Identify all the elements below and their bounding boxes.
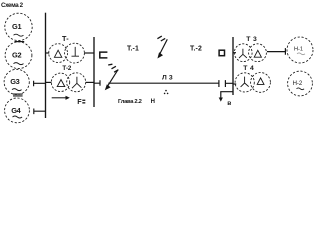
svg-text:Т.-1: Т.-1 xyxy=(127,45,139,52)
arrow from bus C bottom (load feeder) xyxy=(219,92,233,102)
label T- (transformer T1 label) xyxy=(62,34,69,43)
node double-bar between G3 and G4 xyxy=(13,94,23,96)
bus C xyxy=(232,37,234,95)
fault K1 lightning arrow xyxy=(157,36,167,58)
svg-text:Глава 2.2: Глава 2.2 xyxy=(118,99,142,105)
transformer T2 xyxy=(51,73,85,92)
bus A (generator bus) xyxy=(45,13,47,118)
transformer T1 xyxy=(49,43,85,63)
svg-text:Н: Н xyxy=(151,99,155,105)
wire bus C to T3 xyxy=(233,52,236,54)
svg-text:Т-: Т- xyxy=(62,34,69,43)
svg-text:Т 3: Т 3 xyxy=(246,36,257,43)
svg-text:Схема 2: Схема 2 xyxy=(1,2,24,9)
svg-text:F: F xyxy=(77,97,82,106)
generator G3 xyxy=(4,69,29,94)
caption text under L-3 xyxy=(118,99,155,105)
wire bus A to T2 xyxy=(46,81,52,83)
label T-2 (transformer T2 label) xyxy=(62,65,71,72)
svg-text:Т 4: Т 4 xyxy=(243,65,254,72)
breaker tick right end of L-3 xyxy=(218,80,220,87)
label T 4 xyxy=(243,65,254,72)
wire bus B stub with breaker tick xyxy=(94,80,100,86)
label T-2 on line L-2 xyxy=(190,45,202,52)
svg-text:Т.-2: Т.-2 xyxy=(190,45,202,52)
svg-text:Н-2: Н-2 xyxy=(293,81,303,87)
title text "Схема 2" xyxy=(1,2,24,9)
fault K2 lightning arrow on L-3 xyxy=(105,64,119,90)
generator G2 xyxy=(5,42,32,69)
wire T3 to load H-1 with tick xyxy=(267,48,285,55)
breaker square (open) at bus B, line L-1 left end xyxy=(100,52,108,58)
label T 3 xyxy=(246,36,257,43)
load H-1 xyxy=(287,37,313,63)
bus B xyxy=(93,37,95,107)
svg-text:G2: G2 xyxy=(12,51,21,60)
three-dot mark under L-3 xyxy=(164,90,169,94)
svg-text:Н-1: Н-1 xyxy=(294,47,303,53)
svg-text:в: в xyxy=(227,100,231,107)
second tick and stub to bus C xyxy=(225,80,233,87)
load H-2 xyxy=(288,71,313,96)
line L-3 xyxy=(108,82,219,84)
svg-text:Л 3: Л 3 xyxy=(162,74,173,81)
wire T1 to bus B xyxy=(84,52,94,54)
wire bus C to T4 xyxy=(233,83,236,85)
label в near arrow xyxy=(227,100,231,107)
breaker square (closed) at bus C, line L-2 right end xyxy=(219,50,224,56)
wire T2 to bus B xyxy=(86,81,94,83)
generator G1 xyxy=(5,13,32,40)
svg-text:G4: G4 xyxy=(11,106,21,115)
wire bus A to T1 xyxy=(46,52,50,54)
label L 3 on line L-3 xyxy=(162,74,173,81)
transformer T3 xyxy=(234,44,266,62)
generator G4 xyxy=(5,98,30,123)
transformer T4 xyxy=(235,73,270,93)
label T-1 on line L-1 xyxy=(127,45,139,52)
label F= under T2 arrow xyxy=(77,97,85,106)
svg-text:G1: G1 xyxy=(12,22,21,31)
svg-text:G3: G3 xyxy=(10,77,19,86)
node bar between G1 and G2 xyxy=(15,41,25,43)
svg-text:Т-2: Т-2 xyxy=(62,65,71,72)
arrow under T2 (power flow) xyxy=(52,96,70,100)
wire G3 to bus A with tick xyxy=(34,81,46,87)
wire G4 to bus A with tick xyxy=(34,109,46,115)
